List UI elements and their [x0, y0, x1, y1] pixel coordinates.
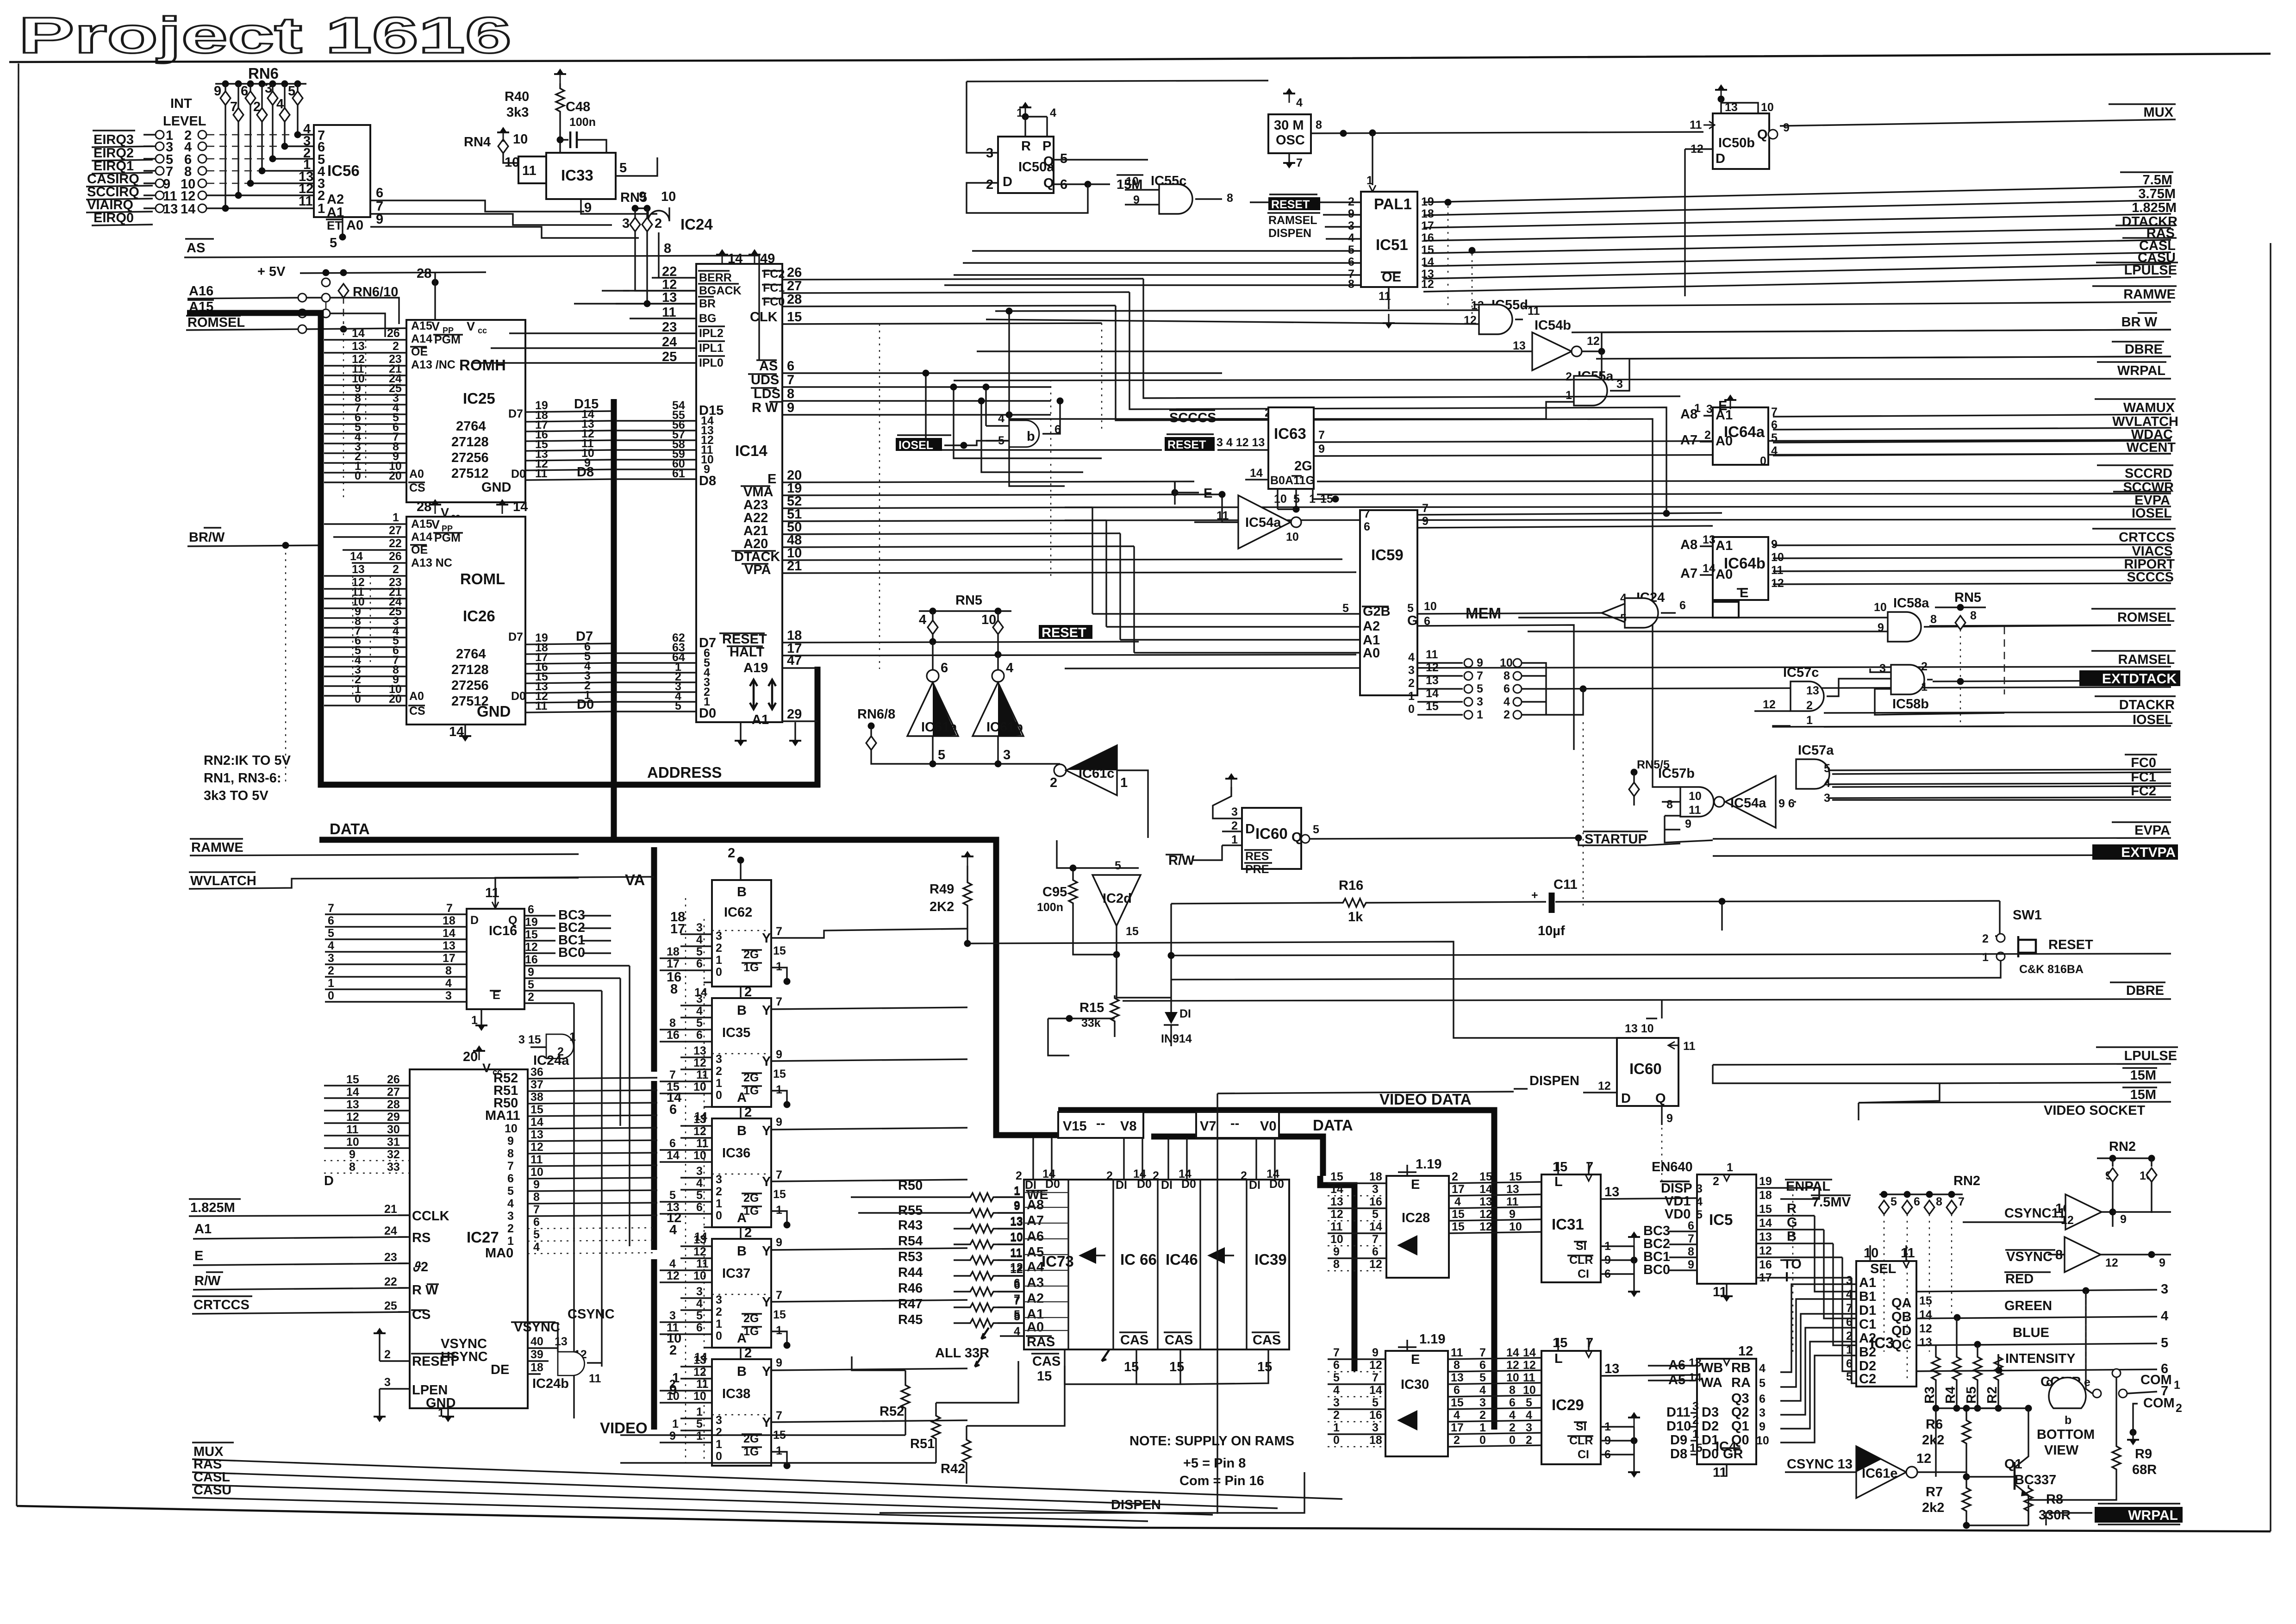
svg-text:9: 9: [1759, 1420, 1766, 1433]
svg-text:3: 3: [384, 1376, 391, 1389]
svg-text:7: 7: [1477, 669, 1483, 682]
svg-text:10: 10: [1874, 601, 1887, 614]
svg-text:R40: R40: [505, 89, 529, 104]
svg-text:4: 4: [1479, 1384, 1486, 1397]
svg-text:1: 1: [393, 511, 399, 524]
shift register IC29: [1541, 1351, 1601, 1464]
svg-text:7: 7: [533, 1203, 540, 1216]
svg-text:2: 2: [1408, 677, 1415, 690]
long dash bundle mid-right: [1792, 1194, 1793, 1356]
svg-text:5: 5: [1479, 1371, 1486, 1384]
svg-text:RESET: RESET: [1167, 438, 1206, 451]
svg-text:1: 1: [2174, 1379, 2180, 1392]
buffer IC61a: [907, 682, 958, 736]
svg-text:5: 5: [1526, 1396, 1532, 1409]
svg-text:ROMSEL: ROMSEL: [2117, 610, 2175, 625]
svg-text:49: 49: [760, 251, 775, 266]
COM1 / COM2: [2112, 1369, 2121, 1377]
net SCCWR: [1317, 480, 2174, 495]
svg-text:DBRE: DBRE: [2126, 983, 2164, 998]
svg-text:IC46: IC46: [1166, 1251, 1198, 1268]
left pins 26..33: [324, 1085, 410, 1086]
svg-text:IPL0: IPL0: [699, 356, 724, 369]
svg-text:40: 40: [530, 1335, 543, 1348]
shift register IC31: [1541, 1174, 1601, 1282]
svg-text:G: G: [1407, 613, 1418, 628]
svg-text:+ 5V: + 5V: [257, 264, 286, 279]
svg-text:13: 13: [1604, 1185, 1619, 1199]
svg-text:13: 13: [346, 1098, 359, 1111]
IC63: [1169, 406, 1271, 425]
svg-text:IC60: IC60: [1629, 1060, 1662, 1077]
svg-text:9: 9: [2120, 1213, 2127, 1226]
svg-text:ROMH: ROMH: [459, 356, 506, 374]
svg-text:9: 9: [1477, 656, 1483, 669]
svg-text:9: 9: [1688, 1258, 1694, 1271]
svg-text:14: 14: [1703, 562, 1716, 575]
svg-text:WA: WA: [1701, 1375, 1722, 1390]
svg-text:4: 4: [507, 1197, 514, 1210]
svg-text:IC59: IC59: [1371, 546, 1404, 563]
svg-text:12: 12: [1369, 1359, 1382, 1372]
svg-text:2: 2: [1050, 775, 1057, 790]
net 1.825M: [1423, 200, 2177, 228]
svg-text:Y: Y: [762, 1054, 771, 1069]
svg-text:11: 11: [299, 194, 313, 209]
svg-text:NOTE: SUPPLY ON RAMS: NOTE: SUPPLY ON RAMS: [1129, 1434, 1294, 1449]
svg-text:RESET: RESET: [1042, 625, 1086, 640]
svg-text:b: b: [2065, 1414, 2071, 1427]
svg-text:2: 2: [1509, 1421, 1516, 1434]
svg-text:16: 16: [1369, 1195, 1382, 1208]
svg-text:15: 15: [773, 1308, 786, 1321]
svg-text:R4: R4: [1943, 1387, 1958, 1404]
svg-text:2764: 2764: [456, 647, 486, 662]
svg-text:R6: R6: [1926, 1417, 1943, 1432]
svg-text:E: E: [1740, 586, 1748, 600]
svg-text:13: 13: [1759, 1230, 1772, 1243]
svg-text:37: 37: [530, 1078, 543, 1091]
svg-text:8: 8: [1509, 1384, 1516, 1397]
svg-text:7: 7: [1364, 507, 1370, 520]
svg-text:11: 11: [1330, 1220, 1343, 1233]
svg-text:1: 1: [1921, 681, 1928, 693]
bus ADDRESS riser to CPU: [815, 667, 821, 787]
svg-text:28: 28: [417, 500, 431, 514]
svg-text:6: 6: [528, 903, 534, 916]
svg-text:7: 7: [776, 1168, 782, 1181]
svg-text:10µf: 10µf: [1538, 924, 1565, 938]
svg-text:VSYNC: VSYNC: [2006, 1249, 2053, 1264]
svg-text:21: 21: [384, 1203, 397, 1216]
svg-text:1: 1: [569, 1031, 576, 1043]
svg-text:ENPAL: ENPAL: [1786, 1179, 1830, 1194]
svg-text:15: 15: [1919, 1294, 1932, 1307]
svg-text:R53: R53: [898, 1249, 923, 1264]
svg-text:C11: C11: [1554, 877, 1578, 892]
RAM bank IC73 IC66 IC46 IC39: [1024, 1180, 1289, 1349]
svg-text:5: 5: [938, 748, 945, 762]
svg-text:7: 7: [1296, 156, 1303, 169]
svg-text:15: 15: [773, 1188, 786, 1201]
net EVPA2: [1713, 822, 2171, 839]
svg-text:3: 3: [2161, 1282, 2168, 1297]
svg-text:15: 15: [1426, 700, 1439, 713]
svg-text:GR: GR: [1723, 1447, 1743, 1462]
net WVLATCH left: [189, 872, 579, 889]
svg-text:R3: R3: [1922, 1387, 1937, 1404]
svg-text:7: 7: [776, 1289, 782, 1302]
net MUX: [1780, 104, 2176, 126]
net EIRQ0: [92, 211, 153, 225]
svg-text:15: 15: [1452, 1208, 1465, 1221]
svg-text:11: 11: [589, 1372, 601, 1385]
svg-text:10: 10: [505, 1122, 518, 1135]
resistor R9 68R: [2112, 1443, 2121, 1472]
svg-text:5: 5: [330, 236, 337, 250]
svg-text:BOTTOM: BOTTOM: [2037, 1427, 2095, 1442]
svg-text:9: 9: [349, 1148, 356, 1161]
svg-text:4: 4: [1504, 695, 1510, 708]
svg-text:10: 10: [530, 1166, 543, 1179]
net MUX bottom: [192, 1443, 1342, 1499]
svg-text:GREEN: GREEN: [2004, 1299, 2052, 1313]
IC5: [1697, 1174, 1756, 1284]
resistor array R50..R45 into RAM: [620, 1178, 1065, 1484]
svg-text:6: 6: [241, 84, 248, 99]
svg-text:12: 12: [1426, 661, 1439, 674]
svg-text:10: 10: [346, 1136, 359, 1149]
svg-text:2: 2: [1479, 1409, 1486, 1422]
svg-text:5: 5: [1115, 859, 1121, 872]
svg-text:7: 7: [1771, 406, 1778, 418]
svg-text:3k3 TO 5V: 3k3 TO 5V: [204, 788, 268, 803]
svg-text:15: 15: [1509, 1170, 1522, 1183]
svg-text:3: 3: [1706, 403, 1713, 416]
svg-text:11: 11: [696, 1378, 709, 1391]
svg-text:3: 3: [265, 81, 272, 96]
PAL1 IC51: [1361, 192, 1417, 287]
net RAMSEL: [1065, 651, 2176, 668]
C95 / IC2d / R15 / D1 / R49: [930, 840, 1192, 1056]
svg-text:CAS: CAS: [1165, 1333, 1193, 1348]
svg-text:C&K 816BA: C&K 816BA: [2019, 963, 2084, 976]
svg-text:10: 10: [1523, 1384, 1536, 1397]
net CRTCCS left: [192, 1296, 407, 1314]
svg-text:10: 10: [1330, 1233, 1343, 1246]
svg-text:V: V: [431, 518, 440, 531]
net WVLATCH: [1773, 414, 2178, 430]
svg-text:1: 1: [1727, 1161, 1733, 1174]
svg-text:ROMSEL: ROMSEL: [187, 315, 245, 330]
svg-text:4: 4: [696, 1177, 703, 1190]
svg-text:6: 6: [1479, 1359, 1486, 1372]
svg-text:3: 3: [1692, 1400, 1699, 1413]
svg-text:4: 4: [276, 97, 284, 112]
svg-text:D8: D8: [577, 465, 594, 480]
svg-text:11: 11: [696, 1137, 709, 1150]
svg-text:8: 8: [1316, 119, 1322, 131]
svg-text:8: 8: [1333, 1258, 1340, 1271]
svg-text:SEL: SEL: [1870, 1262, 1896, 1276]
svg-text:Q2: Q2: [1731, 1405, 1749, 1420]
svg-text:B: B: [1787, 1229, 1797, 1244]
svg-text:14: 14: [1042, 1168, 1055, 1181]
svg-text:6: 6: [533, 1216, 540, 1229]
svg-text:cc: cc: [478, 326, 487, 335]
svg-text:17: 17: [1452, 1183, 1465, 1196]
svg-text:c: c: [2046, 1376, 2053, 1389]
svg-text:10: 10: [981, 612, 996, 627]
svg-text:7: 7: [1372, 1371, 1379, 1384]
svg-text:IC35: IC35: [722, 1025, 750, 1040]
svg-text:26: 26: [387, 1073, 400, 1086]
svg-text:IC16: IC16: [489, 924, 517, 938]
svg-text:9: 9: [669, 1383, 677, 1398]
svg-text:B: B: [737, 1124, 747, 1138]
svg-text:DISPEN: DISPEN: [1529, 1074, 1579, 1088]
svg-text:11: 11: [530, 1153, 543, 1166]
svg-text:5: 5: [1759, 1377, 1766, 1390]
svg-text:100n: 100n: [569, 116, 596, 129]
svg-text:9: 9: [1422, 515, 1429, 528]
resistor R40 3k3: [554, 69, 566, 83]
svg-text:6: 6: [1014, 1277, 1020, 1290]
svg-text:L: L: [1554, 1351, 1563, 1366]
decoder IC59: [1360, 510, 1417, 695]
svg-text:2: 2: [728, 846, 735, 861]
svg-text:ET: ET: [327, 219, 342, 232]
svg-text:13: 13: [1689, 1356, 1702, 1369]
net WAMUX: [1773, 399, 2176, 417]
svg-text:A3: A3: [1027, 1275, 1044, 1290]
svg-text:HALT: HALT: [730, 645, 764, 660]
svg-text:2: 2: [716, 1305, 722, 1318]
buffer IC2 (VSYNC): [2065, 1237, 2101, 1272]
svg-text:9: 9: [376, 212, 383, 227]
svg-text:9: 9: [214, 84, 221, 99]
net 1.825M left: [189, 1199, 417, 1216]
svg-text:BC0: BC0: [1643, 1262, 1670, 1277]
svg-text:28: 28: [417, 266, 431, 281]
buffer IC2d: [1092, 875, 1141, 926]
svg-text:15: 15: [1479, 1170, 1492, 1183]
svg-text:8: 8: [787, 387, 794, 401]
buffer IC30: [1385, 1351, 1448, 1456]
svg-text:7: 7: [1318, 429, 1325, 442]
svg-text:10: 10: [693, 1269, 706, 1282]
svg-text:BLUE: BLUE: [2013, 1325, 2049, 1340]
svg-text:6: 6: [1454, 1384, 1460, 1397]
svg-text:11: 11: [535, 467, 548, 480]
svg-text:13: 13: [1725, 101, 1738, 114]
svg-text:9: 9: [507, 1135, 514, 1148]
svg-text:0: 0: [716, 1450, 722, 1463]
svg-text:2G: 2G: [1294, 459, 1312, 474]
svg-text:1: 1: [1477, 708, 1483, 721]
svg-text:WVLATCH: WVLATCH: [190, 874, 256, 888]
svg-text:6: 6: [1759, 1393, 1766, 1405]
svg-text:11: 11: [1528, 305, 1540, 318]
svg-text:R47: R47: [898, 1297, 923, 1312]
svg-text:IC5: IC5: [1709, 1211, 1733, 1228]
svg-text:R W: R W: [412, 1283, 438, 1298]
svg-text:3k3: 3k3: [506, 105, 529, 120]
svg-text:D9: D9: [1670, 1433, 1687, 1448]
svg-text:e: e: [2084, 1376, 2090, 1389]
svg-text:8: 8: [1970, 609, 1977, 622]
svg-text:0: 0: [1333, 1434, 1340, 1447]
svg-text:A16: A16: [189, 284, 213, 299]
svg-text:IC50b: IC50b: [1718, 136, 1755, 150]
svg-text:RN4: RN4: [464, 135, 491, 150]
svg-text:D10: D10: [1666, 1419, 1691, 1434]
svg-text:4: 4: [1454, 1195, 1461, 1208]
svg-text:MUX: MUX: [2144, 105, 2174, 120]
svg-text:BG: BG: [699, 312, 717, 325]
svg-text:8: 8: [507, 1147, 514, 1160]
svg-text:4: 4: [1509, 1409, 1516, 1422]
svg-text:10: 10: [1509, 1220, 1522, 1233]
svg-text:3: 3: [1372, 1183, 1379, 1196]
svg-text:8: 8: [445, 964, 452, 977]
svg-text:14: 14: [1250, 467, 1263, 480]
svg-text:14: 14: [352, 327, 365, 340]
svg-text:IC62: IC62: [724, 905, 752, 920]
svg-text:13: 13: [693, 1354, 706, 1367]
svg-text:CAS: CAS: [1120, 1333, 1148, 1348]
svg-text:Q: Q: [1291, 830, 1302, 845]
svg-text:SCCRD: SCCRD: [2125, 466, 2172, 481]
svg-text:3: 3: [986, 146, 993, 161]
svg-text:Com = Pin 16: Com = Pin 16: [1179, 1474, 1264, 1488]
svg-text:2: 2: [557, 1045, 564, 1058]
svg-text:1k: 1k: [1348, 910, 1363, 924]
svg-text:15: 15: [1553, 1160, 1567, 1174]
svg-text:IC61e: IC61e: [1862, 1466, 1897, 1481]
net DBRE: [1596, 342, 2171, 359]
svg-text:CI: CI: [1578, 1268, 1589, 1280]
svg-text:10: 10: [693, 1149, 706, 1162]
svg-text:6: 6: [1771, 418, 1778, 431]
svg-text:4: 4: [2161, 1309, 2168, 1324]
svg-text:A2: A2: [1027, 1291, 1044, 1306]
svg-text:8: 8: [1936, 1195, 1942, 1208]
svg-text:15: 15: [1330, 1170, 1343, 1183]
svg-text:0: 0: [1408, 703, 1415, 716]
svg-text:18: 18: [443, 914, 455, 927]
svg-text:5: 5: [696, 1309, 703, 1322]
svg-text:5: 5: [1372, 1396, 1379, 1409]
svg-text:DI: DI: [1161, 1179, 1173, 1192]
bus DATA to video RAM: [319, 840, 1143, 1135]
svg-text:9: 9: [584, 200, 592, 215]
svg-text:R45: R45: [898, 1312, 923, 1327]
svg-text:7.5M: 7.5M: [2143, 173, 2172, 187]
svg-text:1: 1: [716, 1077, 722, 1090]
flip-flop IC50a with feedback loop: [967, 81, 1268, 81]
svg-text:RN6/8: RN6/8: [857, 707, 895, 722]
svg-text:MA11: MA11: [485, 1108, 520, 1123]
svg-text:0: 0: [716, 966, 722, 979]
svg-text:2: 2: [1921, 660, 1928, 673]
svg-text:RN6: RN6: [248, 65, 279, 82]
svg-text:UDS: UDS: [751, 373, 779, 387]
svg-text:1: 1: [672, 1418, 679, 1430]
net DTACKR2: [1824, 696, 2176, 713]
svg-text:CRTCCS: CRTCCS: [2119, 530, 2175, 545]
svg-text:R/W: R/W: [1168, 853, 1195, 868]
svg-text:L: L: [1554, 1174, 1563, 1189]
IC62: [740, 860, 741, 880]
svg-text:23: 23: [662, 320, 677, 335]
svg-text:17: 17: [1451, 1421, 1464, 1434]
svg-text:5: 5: [328, 927, 334, 940]
svg-text:11: 11: [1901, 1246, 1915, 1261]
net DTACKR: [1423, 214, 2177, 241]
svg-text:Q3: Q3: [1731, 1391, 1749, 1406]
svg-text:IC60: IC60: [1255, 825, 1288, 842]
svg-text:2: 2: [1566, 370, 1572, 383]
svg-text:13: 13: [352, 563, 365, 576]
svg-text:WCENT: WCENT: [2127, 440, 2176, 455]
svg-text:BERR: BERR: [699, 271, 732, 284]
svg-text:1: 1: [776, 1444, 782, 1457]
gate b (IOSEL): [1009, 420, 1039, 447]
ROML IC26: [406, 499, 528, 742]
VSYNC buffer: [2005, 1249, 2055, 1264]
CPU IC14 (68000): [696, 264, 782, 722]
svg-text:4: 4: [328, 939, 334, 952]
svg-text:36: 36: [530, 1066, 543, 1079]
decoder IC64b: [1713, 537, 1768, 600]
svg-text:13: 13: [1330, 1195, 1343, 1208]
svg-text:RN5: RN5: [1954, 590, 1981, 605]
svg-text:7.5MV: 7.5MV: [1812, 1195, 1851, 1210]
net SCCIRQ: [86, 185, 153, 200]
svg-text:20: 20: [463, 1049, 478, 1064]
svg-text:V: V: [431, 319, 440, 333]
svg-text:14: 14: [443, 927, 455, 940]
net LPULSE: [1423, 262, 2178, 292]
svg-text:1: 1: [1982, 951, 1989, 964]
svg-text:6: 6: [696, 1029, 703, 1042]
svg-text:2: 2: [1333, 1409, 1340, 1422]
svg-text:R55: R55: [898, 1203, 923, 1218]
svg-text:D: D: [1716, 151, 1725, 166]
net WRPAL bottom: [2095, 1504, 2183, 1524]
svg-text:BGACK: BGACK: [699, 284, 742, 297]
svg-text:15: 15: [346, 1073, 359, 1086]
svg-text:+5 = Pin 8: +5 = Pin 8: [1183, 1456, 1246, 1471]
svg-text:13: 13: [1806, 684, 1819, 697]
IC63: [1268, 407, 1314, 489]
svg-text:12: 12: [1464, 314, 1477, 327]
svg-text:1: 1: [776, 1204, 782, 1217]
svg-text:Y: Y: [762, 1244, 771, 1259]
net CASL bottom: [192, 1470, 1213, 1515]
svg-text:6: 6: [1348, 256, 1354, 269]
svg-text:2: 2: [1454, 1434, 1460, 1447]
mux IC3: [1856, 1261, 1916, 1387]
svg-text:B: B: [737, 885, 747, 899]
transistor bottom view symbol: [2049, 1378, 2086, 1408]
svg-text:24: 24: [662, 335, 677, 350]
svg-text:28: 28: [387, 1098, 400, 1111]
label E: [1172, 489, 1179, 496]
svg-text:12: 12: [667, 1211, 681, 1225]
svg-text:13: 13: [693, 1113, 706, 1126]
